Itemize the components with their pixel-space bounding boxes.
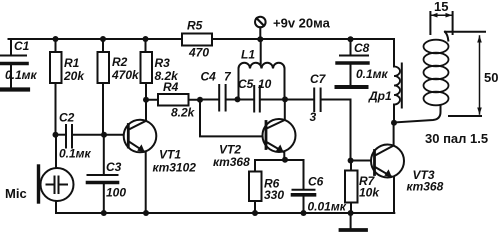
svg-text:R3: R3 [155, 56, 171, 70]
svg-text:L1: L1 [241, 48, 255, 62]
svg-text:R5: R5 [187, 19, 203, 33]
svg-text:C6: C6 [308, 175, 324, 189]
svg-text:C2: C2 [59, 111, 75, 125]
svg-text:3: 3 [310, 110, 317, 124]
svg-text:C3: C3 [106, 160, 122, 174]
svg-text:7: 7 [224, 70, 232, 84]
svg-text:100: 100 [106, 186, 126, 200]
svg-text:Др1: Др1 [368, 89, 392, 103]
svg-text:R1: R1 [64, 56, 80, 70]
svg-text:50: 50 [484, 70, 498, 85]
svg-text:R4: R4 [163, 80, 179, 94]
svg-text:C8: C8 [354, 41, 370, 55]
svg-text:0.01мк: 0.01мк [308, 200, 347, 214]
svg-text:10k: 10k [359, 186, 380, 200]
svg-text:Mic: Mic [5, 186, 27, 201]
svg-text:470k: 470k [111, 68, 140, 82]
svg-text:0.1мк: 0.1мк [5, 68, 38, 82]
svg-text:кт3102: кт3102 [153, 161, 197, 175]
svg-text:10: 10 [258, 77, 272, 91]
svg-text:0.1мк: 0.1мк [356, 67, 389, 81]
svg-text:C7: C7 [310, 72, 327, 86]
svg-text:30 пал 1.5: 30 пал 1.5 [425, 131, 488, 146]
svg-text:C4: C4 [201, 70, 217, 84]
svg-text:8.2k: 8.2k [171, 106, 196, 120]
svg-text:+9v 20ма: +9v 20ма [273, 16, 331, 31]
svg-text:кт368: кт368 [407, 180, 444, 194]
svg-text:C5: C5 [238, 77, 254, 91]
svg-text:0.1мк: 0.1мк [59, 147, 92, 161]
svg-text:R2: R2 [112, 55, 128, 69]
svg-text:VT1: VT1 [159, 148, 181, 162]
svg-text:330: 330 [264, 188, 284, 202]
svg-text:C1: C1 [14, 39, 30, 53]
svg-text:кт368: кт368 [213, 155, 250, 169]
svg-text:15: 15 [434, 0, 448, 14]
svg-text:20k: 20k [63, 69, 85, 83]
svg-text:470: 470 [188, 46, 209, 60]
